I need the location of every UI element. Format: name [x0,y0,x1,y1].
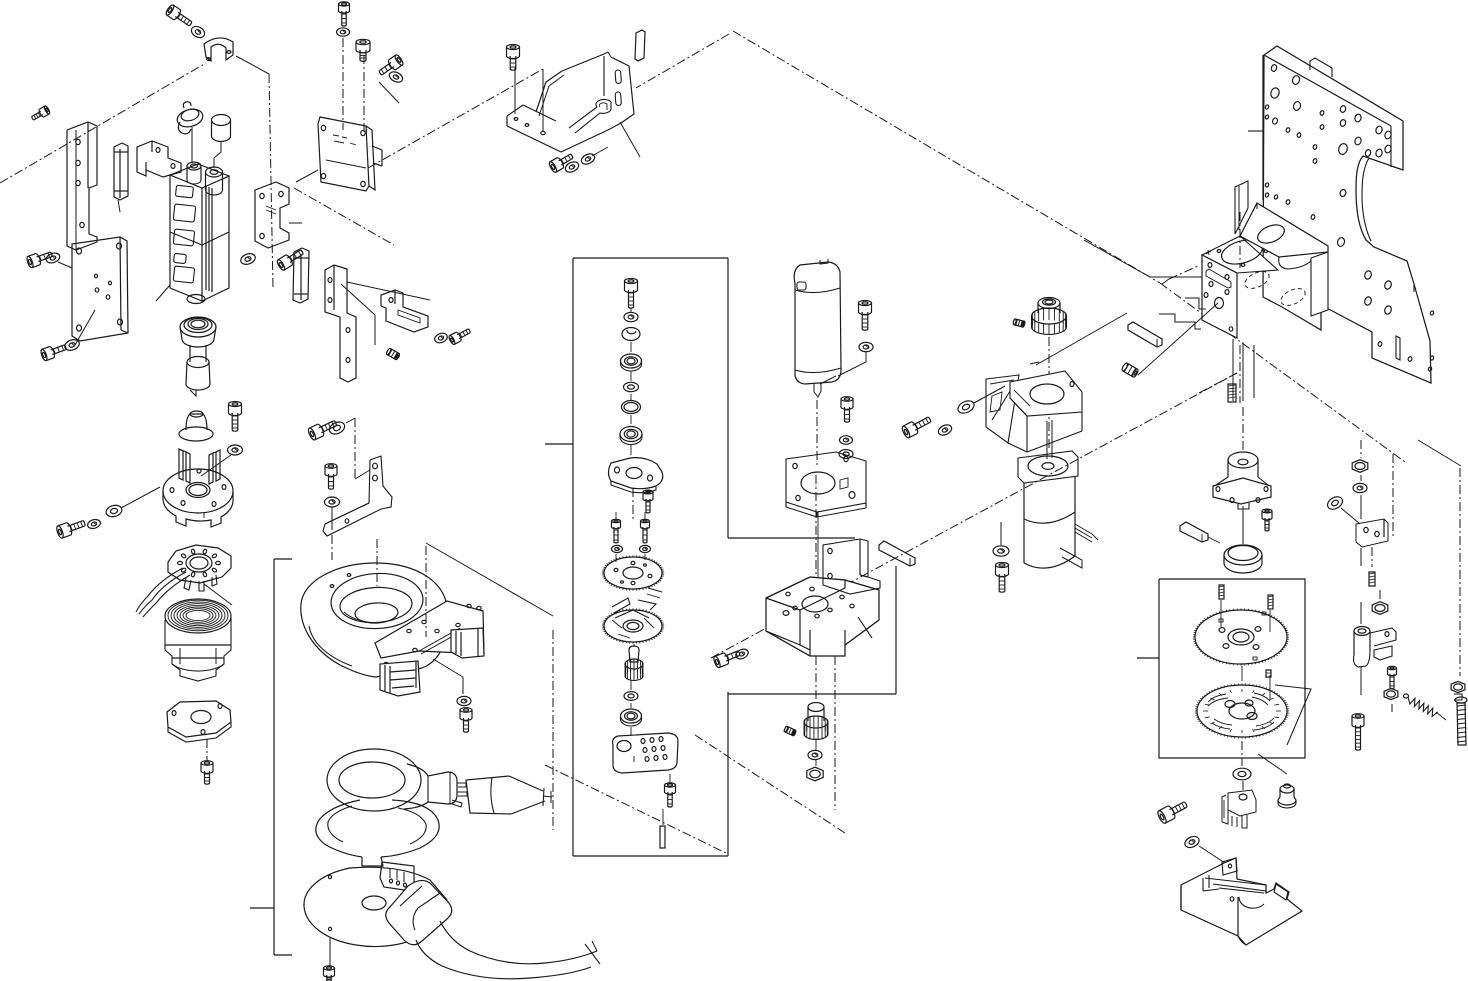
hex nut [807,767,823,781]
construction line top-right axis [1393,440,1461,676]
main plate [1248,46,1434,383]
bracket small [1356,440,1388,566]
washer [1353,483,1367,492]
axis [377,539,426,637]
leader [379,82,399,103]
screw [901,413,933,438]
washer [105,504,123,519]
set screw small [386,348,401,361]
strip plate [114,143,128,212]
slotted disc [168,545,231,591]
washer [325,497,340,507]
construction line C [294,188,394,245]
construction line E lower-left diagonal [545,765,728,854]
plate bottom [613,733,678,773]
washer [624,312,638,321]
blower foot right [451,628,484,658]
box top cylinder small [187,162,201,184]
solenoid body [180,317,216,396]
spring [1404,694,1447,720]
gear disc 1 [602,555,664,592]
screw [1352,714,1364,750]
L bracket [323,456,392,536]
key bar 2 [1128,322,1162,347]
screw long [1455,697,1467,745]
washer [956,398,976,415]
terminal box [156,164,229,304]
U bracket [137,141,181,177]
frame bracket central column [545,258,728,856]
blower housing [301,563,447,677]
hex bolt [1451,681,1465,700]
screw [859,301,872,331]
leader [121,487,160,508]
crank arm [1354,602,1397,695]
screw [325,464,337,489]
construction line B2 [368,69,543,168]
washer [734,647,750,660]
leader plate [296,170,318,182]
set screw [1121,362,1139,378]
screw angled [448,326,472,345]
axis [1242,407,1244,452]
washer [640,545,651,552]
screw [324,966,335,981]
construction line D [0,63,206,183]
stud [1228,384,1236,402]
axis [816,475,818,577]
screw [665,783,676,807]
stepper bracket [986,371,1082,452]
washer [839,450,853,459]
axes [816,656,835,810]
stud b [1268,595,1273,609]
washer [45,251,61,264]
screw [612,519,621,543]
washer small [87,518,102,530]
washer [612,545,623,552]
screw angled right [276,247,306,272]
screw [625,279,638,309]
bottom disc [304,867,447,967]
hex nut [1352,460,1368,473]
axis [331,507,333,560]
washer [433,332,448,345]
box top cylinder large [206,167,223,195]
washer angled [1325,494,1344,512]
leader [1258,754,1287,774]
washer [1233,768,1251,780]
construction line F lower diagonal [695,735,845,833]
motor plate [786,452,866,517]
hex nut [1372,547,1388,614]
washer [937,423,954,437]
set screw [784,726,797,736]
ring large [1224,545,1262,573]
washer [580,152,597,166]
screw small [1388,666,1397,689]
construction line B [636,34,729,88]
frame bracket base block [728,538,896,694]
washer [808,750,822,759]
screw [40,341,68,361]
stepper motor [1018,420,1098,568]
blower mount plate [375,601,484,666]
key bar [879,541,915,566]
washer [1183,834,1201,849]
washer [564,160,581,174]
washer [840,436,853,445]
washer [63,338,81,353]
construction line H blower leader [426,543,553,830]
screw M3 vertical [339,2,350,26]
leaders gear [1242,666,1311,766]
C ring [622,328,640,341]
mount plate with bracket [318,117,382,191]
ring [622,401,641,414]
bearing [620,427,642,445]
stud a [1219,585,1224,599]
screw [841,397,853,422]
angle bracket slotted [381,290,428,332]
screw [641,519,650,543]
axes center column [616,308,670,825]
clamp saddle bracket [204,38,233,61]
spring clips [612,594,660,618]
wires [136,568,232,617]
hex nut small [1384,688,1398,699]
cap cylinder [212,115,231,142]
screw angled [377,54,405,78]
washer small [624,382,639,391]
washer [993,546,1009,556]
washer [337,28,350,36]
set screw [1013,319,1026,328]
washer [433,659,471,706]
base bracket [1181,858,1302,945]
wing knob [175,102,205,134]
screw [55,517,86,539]
side bracket plate [67,122,97,250]
plug 2 [380,862,414,890]
lock washer [189,24,206,40]
gearbox bracket [1202,181,1328,403]
oval plate [609,458,663,493]
pinion shaft [625,646,643,681]
pin [660,826,665,848]
gear slotted [1195,683,1289,738]
pentagon plate [167,701,231,762]
pulley [1032,298,1067,335]
washer C [239,252,257,267]
bracket big top [507,52,640,157]
cable ring 2 [316,800,439,866]
washer [388,70,405,84]
leader [1341,508,1360,524]
axis [1391,704,1393,712]
knurled knob [804,703,828,740]
washer [859,342,873,351]
gear disc 2 [602,608,664,644]
leader [974,386,1005,403]
screw [229,402,242,432]
construction line G right diagonal [711,373,1237,658]
screw [307,417,339,441]
screw [643,490,653,513]
axis [1242,506,1244,544]
shoulder screw [1278,784,1296,808]
screw [1156,798,1189,824]
blower foot left [380,661,420,696]
construction line A [733,31,1405,462]
bracket Z [255,182,302,248]
leader [1199,846,1225,863]
screw [713,647,742,668]
motor mount ring [163,449,233,527]
leader clamp [236,56,273,289]
bracket on block [823,539,880,594]
screw [507,45,520,71]
frame box gear detail [1137,579,1305,758]
leader [201,455,231,476]
button screw [356,39,370,61]
stud [1369,572,1375,586]
screw [201,761,213,784]
cable sleeve [386,880,600,978]
screw [996,563,1009,593]
pin [1180,522,1220,543]
screw M4 angled top-left [165,4,194,29]
washer [624,692,638,701]
screw [26,248,54,268]
zigzag keyway lines [1030,240,1218,375]
plate lower-left [58,237,128,345]
axis lines plate screws [343,38,364,133]
washer [327,420,346,437]
cable ring 1 [327,749,467,811]
strip plate 2 [293,248,309,303]
latch assembly [1222,781,1256,828]
frame bracket blower [250,559,292,955]
motor [794,259,841,397]
rod [635,30,645,61]
screw [548,151,575,174]
stepper small [1213,452,1271,509]
set screw tiny [1266,670,1271,677]
leader [1000,522,1002,545]
tall bracket [325,265,430,382]
rubber cap [179,411,213,441]
plug boot [466,776,552,814]
leader knob [191,127,193,163]
gear sun [1193,600,1289,666]
screw [460,708,472,732]
screw [1262,509,1272,531]
leader cap [214,141,221,168]
axis [346,418,370,480]
bearing [621,354,642,371]
axis [1048,337,1050,448]
coil assembly [165,599,231,681]
screw small angled [30,105,51,122]
washer [228,445,243,455]
axis motor [816,400,818,468]
bearing [621,709,642,726]
leader [838,352,866,376]
base block [766,577,879,656]
